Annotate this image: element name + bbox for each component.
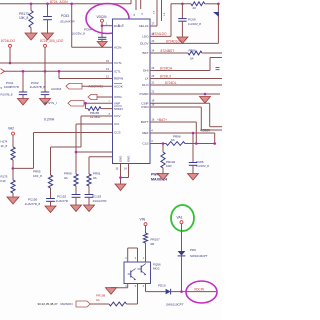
svg-text:PR95: PR95	[33, 170, 41, 174]
svg-text:30,32,35,38,37: 30,32,35,38,37	[38, 302, 58, 306]
capacitor PC152 .1UA/X7R	[55, 194, 80, 205]
wire VDCIN to DCIN pin	[102, 22, 113, 26]
wire CSIP net	[150, 100, 222, 127]
wire top stub A	[135, 0, 137, 10]
capacitor bst marks	[216, 68, 220, 70]
net VDCIN bottom	[194, 287, 205, 291]
wire DLO net	[150, 81, 222, 85]
svg-text:ACIN: ACIN	[114, 46, 121, 50]
transistor Q PQ56 MO2 box	[124, 262, 161, 284]
ground PR102	[158, 174, 169, 181]
wire base down	[137, 284, 139, 305]
resistor PR95 1KF_8	[33, 170, 53, 199]
wire DHI net	[150, 58, 222, 71]
highlight ellipse VDCIN bottom	[186, 281, 217, 303]
node CLS BATT	[195, 142, 198, 145]
svg-text:PR66: PR66	[189, 49, 197, 53]
svg-text:8724BST: 8724BST	[161, 49, 175, 53]
svg-text:PC152: PC152	[57, 194, 67, 198]
svg-text:8724LDO: 8724LDO	[1, 39, 16, 43]
svg-text:1U/10V_8: 1U/10V_8	[196, 164, 209, 168]
svg-text:0A: 0A	[190, 56, 194, 60]
net 8724BST	[161, 49, 175, 53]
svg-text:8724DH: 8724DH	[160, 67, 173, 71]
ground PC86	[188, 174, 199, 181]
svg-text:REF: REF	[142, 131, 148, 135]
resistor PR173 10K_8	[19, 4, 33, 33]
svg-text:PR108: PR108	[96, 294, 106, 298]
capacitor PC61 1000P/X7R	[4, 71, 27, 98]
ground PC150	[45, 206, 56, 213]
wire ICHG	[97, 96, 113, 98]
svg-text:8724_ACIN: 8724_ACIN	[50, 0, 68, 4]
svg-text:8724DL: 8724DL	[165, 81, 177, 85]
wire ACIN top rail	[0, 0, 131, 4]
resistor rail 20	[191, 2, 205, 10]
wire DLOV net	[150, 4, 218, 44]
svg-text:GND: GND	[127, 156, 131, 162]
ground IC	[115, 184, 126, 191]
svg-text:CCS: CCS	[114, 131, 121, 135]
ground PC153	[84, 205, 95, 212]
ground PC69	[177, 37, 188, 44]
svg-text:LDO: LDO	[142, 35, 149, 39]
resistor PR175 1K	[1, 168, 16, 197]
svg-text:0.2V/A: 0.2V/A	[44, 118, 55, 122]
net 8724LDO	[153, 32, 168, 36]
testpoint VDCIN	[101, 19, 104, 22]
svg-text:.01UA/X7R: .01UA/X7R	[92, 199, 106, 203]
wire REF net	[150, 129, 215, 133]
label top stub marks	[134, 12, 144, 16]
wire tp2 riser	[44, 47, 46, 71]
svg-text:0A: 0A	[64, 176, 68, 180]
svg-text:REFIN: REFIN	[114, 77, 123, 81]
wire collector down	[146, 284, 166, 292]
net PR108 label	[96, 294, 106, 302]
svg-text:1KF_8: 1KF_8	[33, 174, 42, 178]
svg-text:PC63: PC63	[61, 14, 69, 18]
wire emitter gnd	[111, 284, 128, 288]
svg-text:+BAT+: +BAT+	[157, 118, 167, 122]
node CLS REF	[213, 142, 216, 145]
svg-text:K1F: K1F	[1, 179, 7, 183]
node rail junction PR173	[30, 3, 33, 6]
svg-text:DLOV: DLOV	[140, 42, 149, 46]
svg-text:PR165: PR165	[90, 111, 100, 115]
wire stub line152	[76, 151, 113, 153]
wire BATT net	[150, 118, 196, 143]
highlight ellipse VDCIN top	[86, 4, 129, 34]
op-amp U1 MAX8724 body	[113, 19, 151, 164]
svg-text:IINP: IINP	[114, 101, 120, 105]
node rail DLOV	[217, 3, 220, 6]
testpoint VA2	[12, 132, 15, 135]
node PC86	[192, 132, 195, 135]
wire base bridge	[128, 248, 138, 262]
node rail PC69	[181, 3, 184, 6]
node CCI	[75, 151, 78, 154]
label VA1	[177, 216, 183, 220]
capacitor PC64 1U/25V_8	[72, 26, 107, 42]
diode PD9 SW1010CPT	[178, 248, 208, 292]
pin numbers 15 13 12	[106, 59, 109, 79]
net ACOK#11	[89, 84, 104, 88]
capacitor PC86 1U/10V_8	[189, 133, 209, 174]
ground PC64	[97, 42, 107, 48]
net 8724_300_LDO label	[40, 39, 64, 43]
svg-text:ACOK: ACOK	[114, 84, 124, 88]
wire ICTL line	[1, 69, 113, 74]
node REFIN tie	[58, 70, 61, 73]
svg-text:VCTL: VCTL	[114, 61, 122, 65]
svg-text:PD9: PD9	[190, 248, 196, 252]
wire CCV route	[51, 116, 113, 175]
resistor PR174 1K_8	[1, 135, 16, 168]
label ACOK#	[51, 87, 62, 91]
wire REFIN line	[59, 71, 113, 78]
ground PC61	[18, 99, 29, 106]
capacitor PC150 .1UA/X7R_8	[24, 197, 55, 206]
node tp1 VCTL	[9, 62, 12, 65]
testpoint VA1	[180, 221, 183, 224]
svg-text:1U/25V_8: 1U/25V_8	[72, 32, 86, 36]
svg-text:CSIN: CSIN	[141, 105, 148, 109]
svg-text:LX: LX	[145, 77, 149, 81]
svg-text:CELLS: CELLS	[139, 24, 149, 28]
net 8724LX	[160, 75, 172, 79]
offpage connector ICHG	[88, 94, 97, 99]
svg-text:PR99: PR99	[64, 172, 72, 176]
wire PGND net	[150, 90, 220, 94]
pin numbers top	[125, 258, 145, 260]
label edge fragment	[1, 86, 13, 97]
resistor PR99 0A	[64, 172, 78, 195]
node VDCIN	[101, 24, 104, 27]
node rail junction PC63	[46, 3, 49, 6]
svg-text:VDCIN: VDCIN	[97, 15, 108, 19]
node IC gnd	[119, 176, 122, 179]
svg-text:PGND: PGND	[140, 92, 150, 96]
svg-text:8724_300_LDO: 8724_300_LDO	[40, 39, 64, 43]
offpage connector ACOK	[66, 83, 82, 89]
transistor left glyph	[128, 269, 136, 281]
svg-text:VA1: VA1	[177, 216, 183, 220]
resistor PR91 0A	[87, 172, 101, 195]
node PR102	[162, 142, 165, 145]
wire top stub B	[140, 0, 142, 9]
svg-text:VDCIN: VDCIN	[194, 287, 205, 291]
wire tp1 riser	[9, 47, 11, 63]
IC left pin names	[114, 24, 124, 135]
label MAINON pins	[38, 302, 58, 306]
svg-text:R1X7B_8: R1X7B_8	[1, 93, 13, 97]
testpoint 8724LDO	[9, 44, 12, 47]
wire BST out	[202, 52, 222, 54]
node ACIN rail	[70, 3, 73, 6]
svg-text:.1UA/X7R_8: .1UA/X7R_8	[24, 202, 40, 206]
node SYS	[84, 102, 87, 105]
wire stub line157	[89, 157, 113, 174]
svg-text:8724LDO: 8724LDO	[153, 32, 168, 36]
svg-text:VA2: VA2	[8, 127, 14, 131]
label VDCIN top	[97, 15, 108, 19]
wire CCS route	[13, 133, 113, 169]
label VIN	[140, 218, 146, 222]
node tp2 ICTL	[44, 70, 47, 73]
pin numbers bottom	[125, 286, 145, 288]
testpoint 8724_300_LDO	[44, 44, 47, 47]
wire CELLS stubs	[150, 0, 162, 26]
wire PD10 out	[171, 291, 216, 293]
svg-text:DHI: DHI	[143, 69, 148, 73]
capacitor PC63 .01UA/X7R	[43, 4, 75, 33]
capacitor PC62 .1UA/X7B_8	[29, 71, 49, 98]
svg-text:PD10: PD10	[158, 283, 166, 287]
wire LDO rail	[171, 3, 218, 5]
label MAINON	[61, 302, 73, 306]
capacitor PC69 1U/10V_8	[178, 4, 201, 37]
IC GND pins rotated	[119, 156, 131, 162]
label 4.096V	[200, 129, 211, 133]
wire ACIN riser	[72, 4, 113, 48]
net 8724DH	[160, 67, 173, 71]
svg-text:20: 20	[193, 6, 197, 10]
ground PC152	[71, 205, 82, 212]
resistor PR108 0A	[109, 302, 127, 306]
triangle edge mark	[213, 12, 219, 17]
net 8724DL	[165, 81, 177, 85]
svg-text:90 SYS_I: 90 SYS_I	[44, 101, 57, 105]
svg-text:8724LX: 8724LX	[160, 75, 172, 79]
resistor PR96 6A	[166, 134, 185, 145]
wire LX net	[150, 75, 222, 79]
node VA2 divider tap	[12, 167, 15, 170]
ground PC63	[42, 33, 54, 40]
wire PR108 to base	[127, 303, 138, 305]
svg-text:GND: GND	[119, 156, 123, 162]
svg-text:1U/10V_8: 1U/10V_8	[188, 22, 201, 26]
testpoint VIN	[144, 223, 147, 226]
svg-text:CCV: CCV	[114, 114, 121, 118]
wire SYS to IINP	[84, 102, 113, 104]
offpage connector SYS	[68, 100, 84, 106]
ground PR173	[25, 33, 37, 40]
wire CLS net	[150, 133, 215, 144]
node PD9 PD10	[180, 290, 183, 293]
svg-text:1000P/X7R: 1000P/X7R	[4, 85, 19, 89]
svg-text:10K_8: 10K_8	[19, 16, 28, 20]
wire ACOK	[82, 85, 113, 87]
transistor right glyph	[138, 264, 147, 276]
label cells rotated	[154, 10, 167, 16]
svg-text:ACOK#: ACOK#	[51, 87, 62, 91]
ground PC62	[40, 99, 51, 106]
capacitor PC153 .01UA/X7R	[85, 194, 107, 205]
svg-text:8724DLOV: 8724DLOV	[166, 39, 183, 43]
IC top rotated marks	[119, 23, 125, 27]
wire VDCIN stub	[101, 22, 103, 26]
svg-text:.01UA/X7R: .01UA/X7R	[60, 19, 76, 23]
wire VCTL line	[0, 62, 113, 64]
resistor PR107 0R	[143, 226, 160, 262]
svg-text:MAINON: MAINON	[61, 302, 73, 306]
svg-text:.1UA/X7R: .1UA/X7R	[55, 199, 68, 203]
resistor PR66 0A	[188, 49, 202, 61]
wire MAINON	[90, 303, 109, 305]
net 8724DLOV	[166, 39, 183, 43]
pin number marks	[109, 101, 111, 116]
wire BST net	[150, 49, 188, 53]
svg-text:ICHG: ICHG	[114, 95, 122, 99]
svg-text:BATT: BATT	[141, 120, 149, 124]
net +BAT+	[157, 118, 167, 122]
svg-text:BST: BST	[142, 51, 148, 55]
svg-text:CCI: CCI	[114, 122, 119, 126]
diode PD10 SW1010CPT	[158, 283, 184, 306]
net 8724LDO testpoint label	[1, 39, 16, 43]
svg-text:DLO: DLO	[142, 83, 149, 87]
svg-text:MO2: MO2	[153, 267, 160, 271]
label VA2	[8, 127, 14, 131]
svg-text:1F_8: 1F_8	[1, 144, 8, 148]
node PGND	[204, 93, 207, 96]
wire LDO net	[150, 4, 171, 37]
IC right pin names	[139, 24, 150, 146]
svg-text:4.096V: 4.096V	[200, 129, 211, 133]
svg-text:VIN: VIN	[140, 218, 146, 222]
label 0.2V/A	[44, 118, 55, 122]
svg-text:0A: 0A	[93, 176, 97, 180]
svg-text:SW1010CPT: SW1010CPT	[166, 303, 184, 307]
ground PR175	[7, 197, 19, 204]
wire VA1 to PD9	[181, 224, 183, 251]
svg-text:ICTL: ICTL	[114, 70, 121, 74]
resistor PR165 12.4K/F	[86, 103, 113, 119]
highlight circle VA1	[171, 205, 194, 231]
svg-text:PC153: PC153	[92, 194, 102, 198]
wire CCI route	[76, 124, 113, 174]
node PC61	[22, 70, 25, 73]
ground PQ56	[106, 288, 117, 295]
svg-text:.1UA/X7B_8: .1UA/X7B_8	[29, 85, 45, 89]
svg-text:PR91: PR91	[93, 172, 101, 176]
label PWR MAX8724	[151, 172, 167, 181]
ground PGND	[200, 97, 211, 104]
label SYS_I	[44, 101, 57, 105]
svg-text:CLS: CLS	[142, 142, 148, 146]
svg-text:6A: 6A	[171, 138, 175, 142]
svg-text:SHDN: SHDN	[114, 107, 123, 111]
svg-text:PC150: PC150	[28, 197, 38, 201]
wire CSIN net	[150, 103, 222, 130]
net 8724_ACIN	[50, 0, 68, 4]
svg-text:SW1010CPT: SW1010CPT	[190, 254, 208, 258]
svg-text:0A: 0A	[96, 298, 100, 302]
resistor PR102 10R	[161, 144, 176, 174]
offpage connector MAINON	[76, 301, 90, 307]
svg-text:PC69: PC69	[188, 17, 196, 21]
svg-text:10R: 10R	[166, 164, 172, 168]
wire IC GND pins	[116, 164, 129, 185]
